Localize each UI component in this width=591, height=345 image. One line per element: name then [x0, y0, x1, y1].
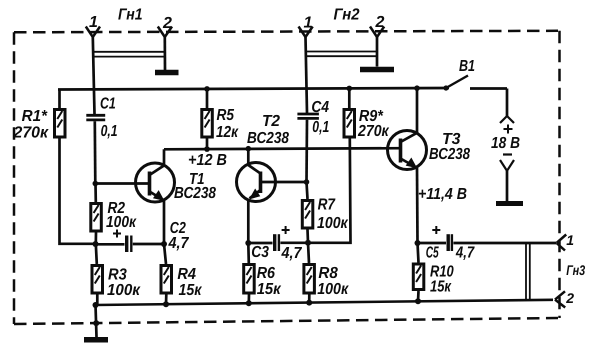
svg-text:2: 2 [162, 15, 172, 32]
junction R8 on ground rail [306, 300, 312, 306]
wire C3 node to R9 bottom [308, 139, 351, 243]
resistor R3 [92, 244, 103, 305]
Gn2 shorting bar (double line) [306, 52, 378, 57]
resistor R8 [304, 243, 315, 303]
svg-text:15к: 15к [430, 279, 452, 296]
svg-text:R6: R6 [257, 265, 275, 282]
svg-text:+12 В: +12 В [188, 152, 227, 169]
svg-text:R5: R5 [217, 107, 235, 124]
svg-text:2: 2 [375, 14, 385, 31]
wire Gn1 pin1 to C1 [93, 37, 95, 114]
resistor R7 [302, 182, 313, 243]
wire Gn2 pin1 to C4 [306, 37, 308, 113]
Gn1 shorting bar (double line) [93, 52, 166, 57]
svg-text:15к: 15к [179, 282, 203, 299]
junction T1 emitter / C2 / R4 [161, 241, 167, 247]
capacitor C1 [86, 115, 105, 183]
switch B1 lever [446, 76, 468, 89]
connector Gn1 pin 1 fork [86, 27, 100, 38]
connector Gn2 pin 2 fork [370, 27, 384, 38]
resistor R9 [344, 89, 355, 138]
resistor R2 [91, 184, 102, 244]
svg-text:С3: С3 [251, 244, 269, 261]
svg-text:0,1: 0,1 [101, 123, 118, 140]
junction T2 collector on +12V node [246, 146, 252, 152]
svg-text:+11,4 В: +11,4 В [418, 186, 467, 203]
junction T3 emitter / C5 / R10 [415, 240, 421, 246]
capacitor C4 [297, 114, 319, 182]
transistor T3 [388, 88, 427, 243]
svg-text:С5: С5 [426, 245, 440, 262]
capacitor C3 [248, 226, 308, 251]
wire Gn1 pin2 to ground [163, 37, 166, 70]
junction R6 on ground rail [246, 300, 252, 306]
junction R7 / C3 / R8 / R9 node [305, 240, 311, 246]
Gn2 ground bar [360, 67, 394, 73]
svg-text:4,7: 4,7 [168, 235, 190, 252]
junction T2 emitter / C3 / R6 [245, 240, 251, 246]
junction ground lead at border crossing [93, 320, 99, 326]
transistor T1 [95, 149, 174, 244]
svg-text:Гн2: Гн2 [334, 7, 360, 24]
svg-text:С1: С1 [100, 96, 116, 113]
svg-text:С4: С4 [311, 99, 329, 116]
svg-text:Т2: Т2 [262, 113, 280, 130]
svg-text:15к: 15к [257, 281, 282, 298]
junction R5 top on +18V rail [204, 86, 210, 92]
junction T1 base / C1 / R2 [93, 181, 99, 187]
dashed enclosure border [14, 31, 560, 324]
junction R9 top on +18V rail [347, 86, 353, 92]
battery 18V connector [496, 89, 523, 204]
junction R1 / R2 / R3 / C2 node [93, 241, 99, 247]
svg-text:В1: В1 [459, 58, 475, 75]
capacitor C5 [418, 226, 557, 251]
svg-text:R8: R8 [318, 265, 337, 282]
resistor R5 [202, 89, 213, 149]
connector Gn1 pin 2 fork [158, 27, 172, 38]
connector Gn3 pin 1 fork [557, 235, 567, 251]
junction R5 bottom on +12V node [204, 146, 210, 152]
svg-text:12к: 12к [216, 124, 239, 141]
bottom ground rail [95, 300, 553, 305]
top +18V rail [58, 88, 449, 90]
svg-text:ВС238: ВС238 [429, 146, 470, 163]
svg-text:1: 1 [566, 232, 574, 248]
svg-text:4,7: 4,7 [455, 245, 475, 262]
Gn3 shorting bar (double line) [526, 243, 530, 300]
svg-text:R3: R3 [108, 267, 127, 284]
svg-text:2: 2 [565, 290, 574, 306]
svg-text:100к: 100к [106, 214, 137, 231]
svg-text:R1*: R1* [22, 108, 48, 125]
switch B1 fixed contact wire [470, 87, 507, 90]
svg-text:ВС238: ВС238 [247, 130, 289, 147]
svg-text:1: 1 [89, 14, 98, 31]
svg-text:R4: R4 [177, 266, 196, 283]
transistor T2 [237, 149, 307, 243]
svg-text:R7: R7 [318, 197, 336, 214]
svg-text:18 В: 18 В [491, 135, 520, 152]
svg-text:Гн1: Гн1 [118, 7, 143, 24]
svg-text:100к: 100к [317, 215, 348, 232]
junction T2 base / C4 / R7 [304, 179, 310, 185]
junction R10 on ground rail [415, 298, 421, 304]
+12V collector rail [164, 148, 401, 149]
svg-text:ВС238: ВС238 [174, 185, 216, 202]
junction switch B1 pivot on +18V rail [443, 85, 448, 90]
resistor R4 [161, 244, 172, 304]
svg-text:1: 1 [304, 15, 313, 32]
svg-text:0,1: 0,1 [312, 119, 329, 136]
connector Gn3 pin 2 fork [555, 291, 565, 307]
wire Gn2 pin2 to ground [376, 37, 379, 67]
junction R4 on ground rail [163, 301, 169, 307]
main ground symbol [84, 305, 108, 340]
svg-text:270к: 270к [13, 125, 49, 142]
resistor R1 [55, 89, 96, 243]
svg-text:Гн3: Гн3 [566, 262, 585, 278]
capacitor C2 [96, 230, 165, 253]
resistor R6 [244, 243, 255, 303]
junction R3 on ground rail [93, 302, 99, 308]
resistor R10 [413, 243, 424, 301]
svg-text:270к: 270к [357, 123, 389, 140]
svg-text:100к: 100к [107, 282, 141, 299]
svg-text:4,7: 4,7 [281, 245, 303, 262]
junction T3 collector on +18V rail [414, 85, 420, 91]
svg-text:100к: 100к [317, 281, 349, 298]
connector Gn2 pin 1 fork [299, 27, 313, 38]
Gn1 ground bar [155, 70, 179, 76]
